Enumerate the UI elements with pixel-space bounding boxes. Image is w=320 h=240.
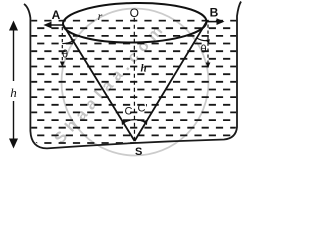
svg-text:θ: θ [200, 44, 206, 56]
axis dashed line O-S [133, 18, 135, 140]
svg-text:r: r [98, 9, 103, 23]
radius arrow at A [46, 24, 64, 26]
small arrow on A dashed line [60, 62, 65, 68]
apex angle arc at S [124, 120, 146, 123]
watermark circle [62, 9, 209, 156]
cone rim ellipse [63, 2, 207, 44]
svg-text:C: C [125, 106, 133, 118]
svg-text:h: h [10, 85, 17, 100]
small arrow on B dashed line [206, 63, 211, 69]
dashed vertical at A [61, 27, 63, 62]
svg-text:C': C' [137, 103, 147, 115]
theta arc at A [62, 41, 73, 44]
dashed vertical at B [207, 25, 209, 64]
cone slant A-S [63, 25, 135, 142]
outer height double arrow [13, 27, 15, 81]
svg-text:A: A [52, 8, 61, 22]
svg-text:θ: θ [62, 49, 68, 61]
theta arc at B [197, 38, 208, 41]
svg-text:B: B [210, 6, 219, 20]
cone slant B-S [135, 22, 207, 141]
svg-text:O: O [130, 6, 139, 20]
svg-text:S: S [135, 146, 142, 158]
liquid dashes [30, 21, 237, 143]
arrow at B [206, 21, 221, 23]
container outline [24, 2, 241, 149]
svg-text:h: h [140, 63, 146, 75]
svg-text:Shaalaa.com: Shaalaa.com [51, 18, 170, 147]
